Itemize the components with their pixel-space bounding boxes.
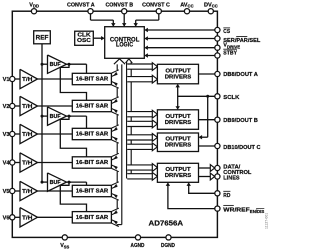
svg-text:DRIVERS: DRIVERS [165,173,192,179]
svg-text:V3: V3 [3,132,10,138]
svg-text:STBY: STBY [223,51,237,57]
svg-text:CONVST B: CONVST B [105,2,133,8]
svg-text:EN/DIS: EN/DIS [250,209,265,214]
svg-text:CONVST C: CONVST C [142,2,170,8]
svg-text:V1: V1 [3,77,10,83]
svg-text:CS: CS [223,29,230,35]
svg-text:VSS: VSS [60,243,69,249]
svg-text:T/H: T/H [22,132,33,138]
svg-text:DRIVERS: DRIVERS [165,142,192,148]
svg-text:LINES: LINES [223,176,240,182]
svg-text:BUF: BUF [50,114,61,120]
svg-text:T/H: T/H [22,215,33,221]
svg-text:11127-001: 11127-001 [265,213,269,229]
svg-text:DB9/DOUT B: DB9/DOUT B [223,118,258,124]
svg-text:DGND: DGND [161,243,175,249]
svg-text:DRIVERS: DRIVERS [165,74,192,80]
svg-text:LOGIC: LOGIC [116,43,134,49]
svg-text:AD7656A: AD7656A [149,218,184,227]
svg-text:WR/REF: WR/REF [223,207,250,213]
svg-text:16-BIT SAR: 16-BIT SAR [76,189,109,195]
svg-text:16-BIT SAR: 16-BIT SAR [76,160,109,166]
svg-text:V5: V5 [3,189,10,195]
svg-text:OSC: OSC [77,38,91,44]
svg-text:DB8/DOUT A: DB8/DOUT A [223,72,258,78]
svg-text:V2: V2 [3,104,10,110]
svg-text:AVCC: AVCC [180,2,193,8]
svg-text:T/H: T/H [22,77,33,83]
svg-text:SCLK: SCLK [223,95,239,101]
svg-text:RD: RD [223,193,230,199]
svg-text:DVCC: DVCC [204,2,218,8]
svg-text:REF: REF [36,35,49,42]
svg-text:VDRIVE: VDRIVE [223,43,240,50]
svg-text:16-BIT SAR: 16-BIT SAR [76,104,109,110]
svg-text:VDD: VDD [29,2,39,8]
svg-text:SER/PAR/SEL: SER/PAR/SEL [223,38,261,44]
svg-text:T/H: T/H [22,104,33,110]
svg-text:AGND: AGND [131,243,145,249]
svg-text:DB10/DOUT C: DB10/DOUT C [223,145,260,151]
svg-text:16-BIT SAR: 16-BIT SAR [76,132,109,138]
svg-text:T/H: T/H [22,189,33,195]
svg-text:BUF: BUF [50,62,61,68]
svg-text:16-BIT SAR: 16-BIT SAR [76,77,109,83]
svg-text:DRIVERS: DRIVERS [165,120,192,126]
svg-text:16-BIT SAR: 16-BIT SAR [76,215,109,221]
svg-text:T/H: T/H [22,161,33,167]
svg-text:V6: V6 [3,215,10,221]
svg-text:CONVST A: CONVST A [67,2,95,8]
svg-text:BUF: BUF [50,180,61,186]
